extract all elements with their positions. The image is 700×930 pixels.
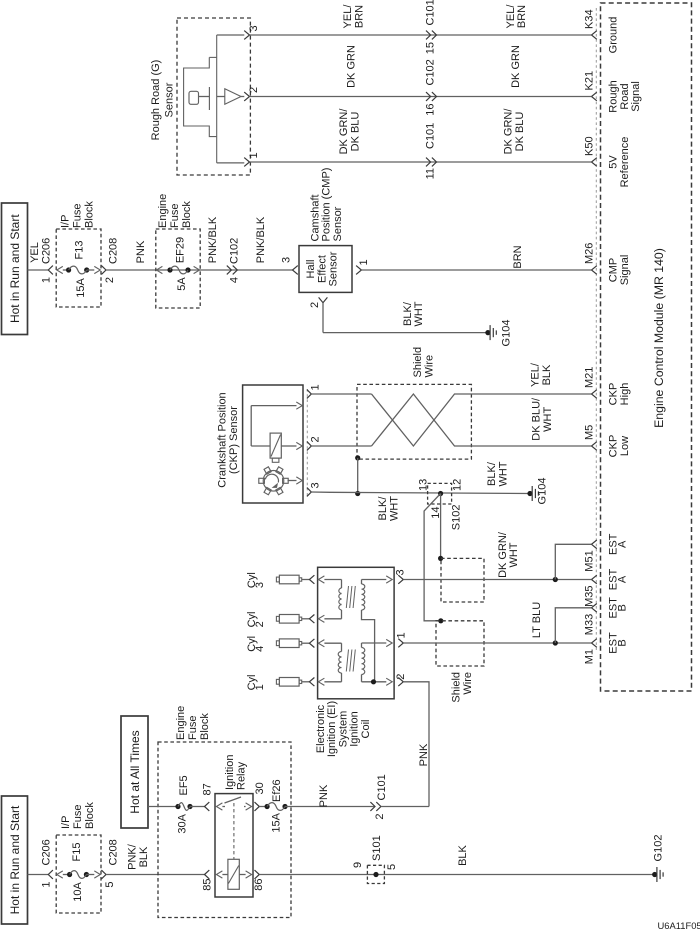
svg-text:12: 12 [452, 479, 464, 491]
svg-text:Hall: Hall [305, 260, 317, 279]
svg-text:Wire: Wire [423, 355, 435, 378]
svg-text:BRN: BRN [512, 245, 524, 268]
svg-text:5: 5 [386, 864, 398, 870]
svg-text:K34: K34 [584, 9, 596, 29]
svg-text:1: 1 [358, 259, 370, 265]
svg-text:BRN: BRN [516, 5, 528, 28]
svg-text:4: 4 [254, 646, 266, 652]
svg-text:2: 2 [374, 814, 386, 820]
svg-text:Block: Block [84, 201, 96, 228]
svg-text:Ef26: Ef26 [271, 779, 283, 802]
svg-text:YEL/: YEL/ [342, 4, 354, 29]
svg-text:Position (CMP): Position (CMP) [321, 168, 333, 242]
svg-text:YEL: YEL [29, 242, 41, 263]
svg-text:CMP: CMP [608, 258, 620, 282]
svg-text:Engine Control Module (MR 140): Engine Control Module (MR 140) [652, 248, 666, 428]
svg-text:Block: Block [181, 201, 193, 228]
svg-text:Road: Road [619, 83, 631, 109]
svg-text:EF5: EF5 [178, 775, 190, 795]
svg-text:DK GRN: DK GRN [510, 45, 522, 88]
svg-text:Ignition (EI): Ignition (EI) [326, 701, 338, 757]
svg-text:DK BLU: DK BLU [350, 112, 362, 152]
svg-text:3: 3 [248, 25, 260, 31]
svg-text:WHT: WHT [497, 461, 509, 486]
svg-text:DK GRN/: DK GRN/ [497, 531, 509, 578]
svg-text:2: 2 [309, 436, 321, 442]
svg-text:K50: K50 [584, 136, 596, 156]
svg-text:Ignition: Ignition [349, 711, 361, 746]
svg-text:2: 2 [395, 674, 407, 680]
svg-text:Fuse: Fuse [187, 716, 199, 740]
svg-text:11: 11 [425, 168, 437, 179]
svg-text:1: 1 [41, 277, 53, 283]
svg-text:30: 30 [254, 782, 266, 794]
svg-text:G104: G104 [501, 320, 513, 347]
svg-text:YEL/: YEL/ [505, 4, 517, 29]
svg-text:M5: M5 [584, 425, 596, 440]
svg-text:C101: C101 [425, 123, 437, 149]
svg-text:M35: M35 [584, 586, 596, 607]
svg-text:M21: M21 [584, 367, 596, 388]
svg-text:9: 9 [352, 862, 364, 868]
svg-text:15A: 15A [270, 812, 282, 832]
svg-text:15: 15 [425, 42, 437, 54]
svg-text:Signal: Signal [619, 255, 631, 286]
svg-text:C206: C206 [41, 839, 53, 865]
svg-text:M33: M33 [584, 614, 596, 635]
svg-text:Rough: Rough [608, 80, 620, 112]
svg-text:5A: 5A [176, 277, 188, 291]
svg-text:BLK: BLK [457, 844, 469, 865]
svg-text:System: System [337, 711, 349, 748]
svg-text:Relay: Relay [235, 761, 247, 790]
svg-text:BLK: BLK [541, 364, 553, 385]
svg-text:1: 1 [309, 384, 321, 390]
svg-text:High: High [619, 383, 631, 406]
svg-text:Hot in Run and Start: Hot in Run and Start [8, 214, 22, 323]
svg-text:PNK: PNK [135, 240, 147, 263]
svg-text:10A: 10A [72, 882, 84, 902]
svg-text:DK GRN/: DK GRN/ [503, 108, 515, 155]
svg-text:CKP: CKP [608, 383, 620, 406]
svg-text:1: 1 [254, 684, 266, 690]
svg-text:Fuse: Fuse [72, 805, 84, 829]
svg-text:PNK: PNK [318, 784, 330, 807]
svg-text:I/P: I/P [60, 215, 72, 228]
svg-text:4: 4 [229, 277, 241, 283]
svg-text:F15: F15 [71, 843, 83, 862]
svg-text:3: 3 [309, 482, 321, 488]
svg-text:Reference: Reference [619, 137, 631, 188]
svg-text:C102: C102 [229, 238, 241, 264]
svg-text:WHT: WHT [542, 406, 554, 431]
svg-text:3: 3 [394, 569, 406, 575]
svg-text:30A: 30A [177, 813, 189, 833]
svg-text:Camshaft: Camshaft [309, 194, 321, 241]
svg-text:PNK/BLK: PNK/BLK [255, 216, 267, 263]
svg-text:M26: M26 [584, 243, 596, 264]
svg-text:DK BLU: DK BLU [514, 112, 526, 152]
svg-text:Coil: Coil [360, 720, 372, 739]
svg-text:87: 87 [202, 783, 214, 795]
svg-text:2: 2 [104, 277, 116, 283]
svg-text:YEL/: YEL/ [530, 362, 542, 387]
svg-text:C102: C102 [425, 59, 437, 85]
svg-text:Fuse: Fuse [72, 204, 84, 228]
svg-text:BLK/: BLK/ [377, 496, 389, 521]
svg-text:C101: C101 [376, 774, 388, 800]
svg-text:Effect: Effect [316, 255, 328, 283]
svg-text:C208: C208 [108, 839, 120, 865]
svg-text:Rough Road (G): Rough Road (G) [150, 60, 162, 141]
svg-text:2: 2 [309, 302, 321, 308]
svg-text:C206: C206 [41, 238, 53, 264]
svg-text:BRN: BRN [353, 5, 365, 28]
svg-text:S101: S101 [371, 835, 383, 861]
svg-text:1: 1 [248, 152, 260, 158]
svg-text:A: A [617, 575, 629, 583]
svg-text:M51: M51 [584, 550, 596, 571]
svg-text:5V: 5V [608, 155, 620, 169]
svg-text:Hot in Run and Start: Hot in Run and Start [8, 805, 22, 914]
svg-text:Block: Block [84, 802, 96, 829]
svg-text:C208: C208 [108, 238, 120, 264]
svg-text:G102: G102 [653, 835, 665, 862]
svg-text:Shield: Shield [451, 672, 463, 703]
svg-text:BLK/: BLK/ [486, 461, 498, 486]
svg-text:Ground: Ground [608, 17, 620, 54]
svg-text:15A: 15A [75, 278, 87, 298]
svg-text:Block: Block [199, 713, 211, 740]
svg-text:BLK: BLK [138, 846, 150, 867]
svg-text:DK BLU/: DK BLU/ [531, 397, 543, 441]
svg-text:Low: Low [619, 436, 631, 456]
svg-text:DK GRN: DK GRN [346, 45, 358, 88]
svg-text:I/P: I/P [60, 816, 72, 829]
svg-text:86: 86 [253, 879, 265, 891]
svg-text:3: 3 [254, 582, 266, 588]
svg-text:EF29: EF29 [174, 237, 186, 263]
svg-text:BLK/: BLK/ [402, 301, 414, 326]
svg-text:5: 5 [104, 882, 116, 888]
svg-text:Signal: Signal [630, 81, 642, 112]
svg-text:Wire: Wire [462, 672, 474, 695]
svg-text:2: 2 [254, 621, 266, 627]
svg-text:WHT: WHT [388, 496, 400, 521]
svg-text:3: 3 [281, 257, 293, 263]
svg-text:Fuse: Fuse [169, 204, 181, 228]
svg-text:1: 1 [396, 632, 408, 638]
svg-text:B: B [617, 639, 629, 646]
svg-text:PNK/: PNK/ [127, 843, 139, 870]
svg-text:B: B [617, 604, 629, 611]
svg-text:Sensor: Sensor [332, 206, 344, 241]
svg-text:PNK: PNK [418, 743, 430, 766]
svg-text:16: 16 [425, 104, 437, 116]
svg-text:2: 2 [248, 87, 260, 93]
svg-text:Electronic: Electronic [315, 704, 327, 753]
svg-text:PNK/BLK: PNK/BLK [207, 216, 219, 263]
svg-text:Crankshaft Position: Crankshaft Position [217, 392, 229, 487]
svg-text:Engine: Engine [157, 194, 169, 228]
svg-text:Ignition: Ignition [224, 755, 236, 790]
svg-text:Sensor: Sensor [164, 82, 176, 117]
svg-text:C101: C101 [425, 0, 437, 26]
svg-text:S102: S102 [451, 505, 463, 531]
svg-text:CKP: CKP [608, 435, 620, 458]
svg-text:F13: F13 [73, 241, 85, 260]
svg-text:K21: K21 [584, 71, 596, 91]
svg-text:LT BLU: LT BLU [531, 602, 543, 638]
svg-text:DK GRN/: DK GRN/ [338, 108, 350, 155]
svg-text:M1: M1 [584, 649, 596, 664]
svg-text:U6A11F05: U6A11F05 [658, 920, 700, 930]
svg-text:G104: G104 [537, 478, 549, 505]
svg-text:85: 85 [202, 879, 214, 891]
svg-text:Hot at All Times: Hot at All Times [128, 730, 142, 813]
svg-text:13: 13 [417, 479, 429, 491]
svg-text:Sensor: Sensor [328, 251, 340, 286]
svg-text:WHT: WHT [413, 301, 425, 326]
svg-text:(CKP) Sensor: (CKP) Sensor [228, 406, 240, 474]
svg-text:Shield: Shield [412, 347, 424, 378]
svg-text:A: A [617, 540, 629, 548]
svg-text:Engine: Engine [175, 706, 187, 740]
svg-text:1: 1 [41, 882, 53, 888]
svg-text:WHT: WHT [508, 542, 520, 567]
